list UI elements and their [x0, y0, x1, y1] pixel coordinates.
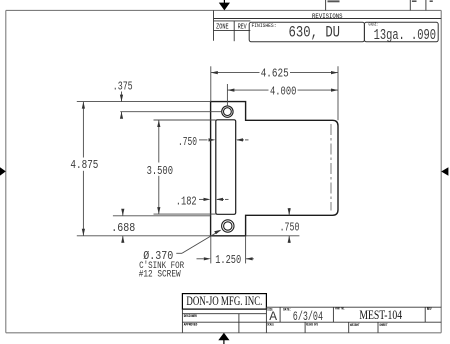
svg-text:PART NO.: PART NO. — [335, 307, 345, 311]
dimension .750 right step — [246, 208, 300, 243]
zone cell — [214, 21, 251, 41]
svg-text:RELEASE DATE: RELEASE DATE — [306, 324, 318, 328]
dimension 4.625 — [211, 66, 338, 120]
svg-text:REV: REV — [427, 308, 432, 312]
svg-text:6/3/04: 6/3/04 — [293, 309, 323, 324]
svg-text:DON-JO MFG. INC.: DON-JO MFG. INC. — [186, 294, 262, 308]
svg-text:DESIGNER: DESIGNER — [184, 315, 198, 319]
svg-text:.750: .750 — [280, 220, 300, 234]
svg-text:13ga. .090: 13ga. .090 — [374, 28, 436, 44]
centering mark right — [441, 167, 448, 176]
svg-text:4.625: 4.625 — [261, 67, 289, 81]
dimension .375 — [77, 92, 222, 119]
dimension 4.875 — [82, 102, 84, 236]
svg-text:3.500: 3.500 — [147, 164, 173, 178]
svg-text:1.250: 1.250 — [215, 253, 241, 267]
svg-text:.182: .182 — [176, 194, 197, 208]
svg-text:.688: .688 — [111, 221, 135, 235]
svg-text:.750: .750 — [178, 135, 197, 149]
cut-off revision table row above top border — [326, 0, 426, 10]
svg-text:4.000: 4.000 — [270, 85, 296, 99]
centering mark left — [0, 167, 6, 175]
svg-text:WEIGHT: WEIGHT — [350, 324, 360, 328]
top hole countersink — [222, 106, 233, 117]
dimension .688 — [77, 209, 211, 243]
svg-text:A: A — [269, 309, 277, 324]
svg-text:REVISIONS: REVISIONS — [312, 13, 343, 21]
slot cutout — [216, 120, 236, 215]
finishes box — [249, 22, 364, 42]
svg-text:REV: REV — [238, 23, 247, 31]
revisions header row — [214, 10, 442, 40]
cut-off header text stubs — [328, 0, 433, 2]
dimension .182 lip — [199, 198, 229, 200]
svg-text:FINISHES:: FINISHES: — [252, 23, 277, 29]
svg-text:4.875: 4.875 — [70, 158, 98, 172]
top hole bore — [224, 108, 232, 116]
dimension .750 slot width — [199, 139, 249, 141]
title block grid — [182, 307, 441, 333]
bottom hole countersink — [222, 220, 234, 232]
title block company box — [182, 294, 266, 310]
centering mark top — [219, 0, 230, 10]
svg-text:SCALE: SCALE — [267, 324, 274, 328]
dimension 4.000 — [227, 84, 338, 106]
dimension 3.500 — [154, 120, 216, 214]
svg-text:.375: .375 — [113, 80, 133, 94]
svg-text:APPROVED: APPROVED — [184, 324, 198, 328]
centerline in tongue — [330, 124, 332, 211]
centering mark bottom — [218, 333, 229, 344]
part outline (strike plate) — [211, 102, 338, 236]
svg-text:630, DU: 630, DU — [289, 24, 341, 42]
svg-text:DATE:: DATE: — [283, 309, 291, 313]
leader for countersink callout — [176, 230, 220, 253]
bottom hole bore — [224, 222, 232, 230]
gauge box — [364, 22, 438, 44]
svg-text:MEST-104: MEST-104 — [359, 308, 402, 322]
svg-text:#12 SCREW: #12 SCREW — [139, 269, 181, 280]
svg-text:SHEET: SHEET — [379, 324, 388, 328]
svg-text:ZONE: ZONE — [216, 23, 229, 31]
dimension 1.250 — [197, 236, 254, 264]
